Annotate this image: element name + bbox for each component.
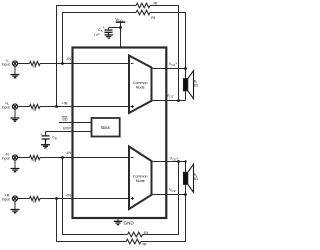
svg-text:BYP: BYP: [63, 126, 71, 130]
svg-text:Common: Common: [133, 81, 148, 85]
svg-text:Input: Input: [2, 198, 10, 202]
svg-text:8Ω: 8Ω: [194, 84, 199, 88]
svg-text:GND: GND: [124, 221, 135, 226]
svg-text:+IN: +IN: [62, 102, 68, 106]
svg-text:-IN: -IN: [66, 151, 71, 155]
svg-text:Common: Common: [133, 175, 148, 179]
svg-text:+: +: [102, 26, 104, 30]
svg-text:Ri: Ri: [33, 65, 36, 69]
svg-text:Input: Input: [2, 157, 10, 161]
svg-text:Input: Input: [2, 63, 10, 67]
svg-text:Bias: Bias: [101, 125, 110, 130]
svg-text:-IN: -IN: [66, 57, 71, 61]
svg-text:Ri: Ri: [33, 108, 36, 112]
svg-text:8Ω: 8Ω: [194, 177, 199, 181]
svg-text:Ri: Ri: [33, 200, 36, 204]
svg-text:Ri: Ri: [33, 159, 36, 163]
svg-text:+: +: [40, 133, 42, 137]
svg-text:1 µF: 1 µF: [94, 32, 100, 36]
svg-text:Mode: Mode: [136, 86, 145, 90]
svg-text:Input: Input: [2, 106, 10, 110]
svg-text:+IN: +IN: [65, 194, 71, 198]
svg-text:SD: SD: [62, 118, 68, 122]
svg-text:Mode: Mode: [136, 179, 145, 183]
